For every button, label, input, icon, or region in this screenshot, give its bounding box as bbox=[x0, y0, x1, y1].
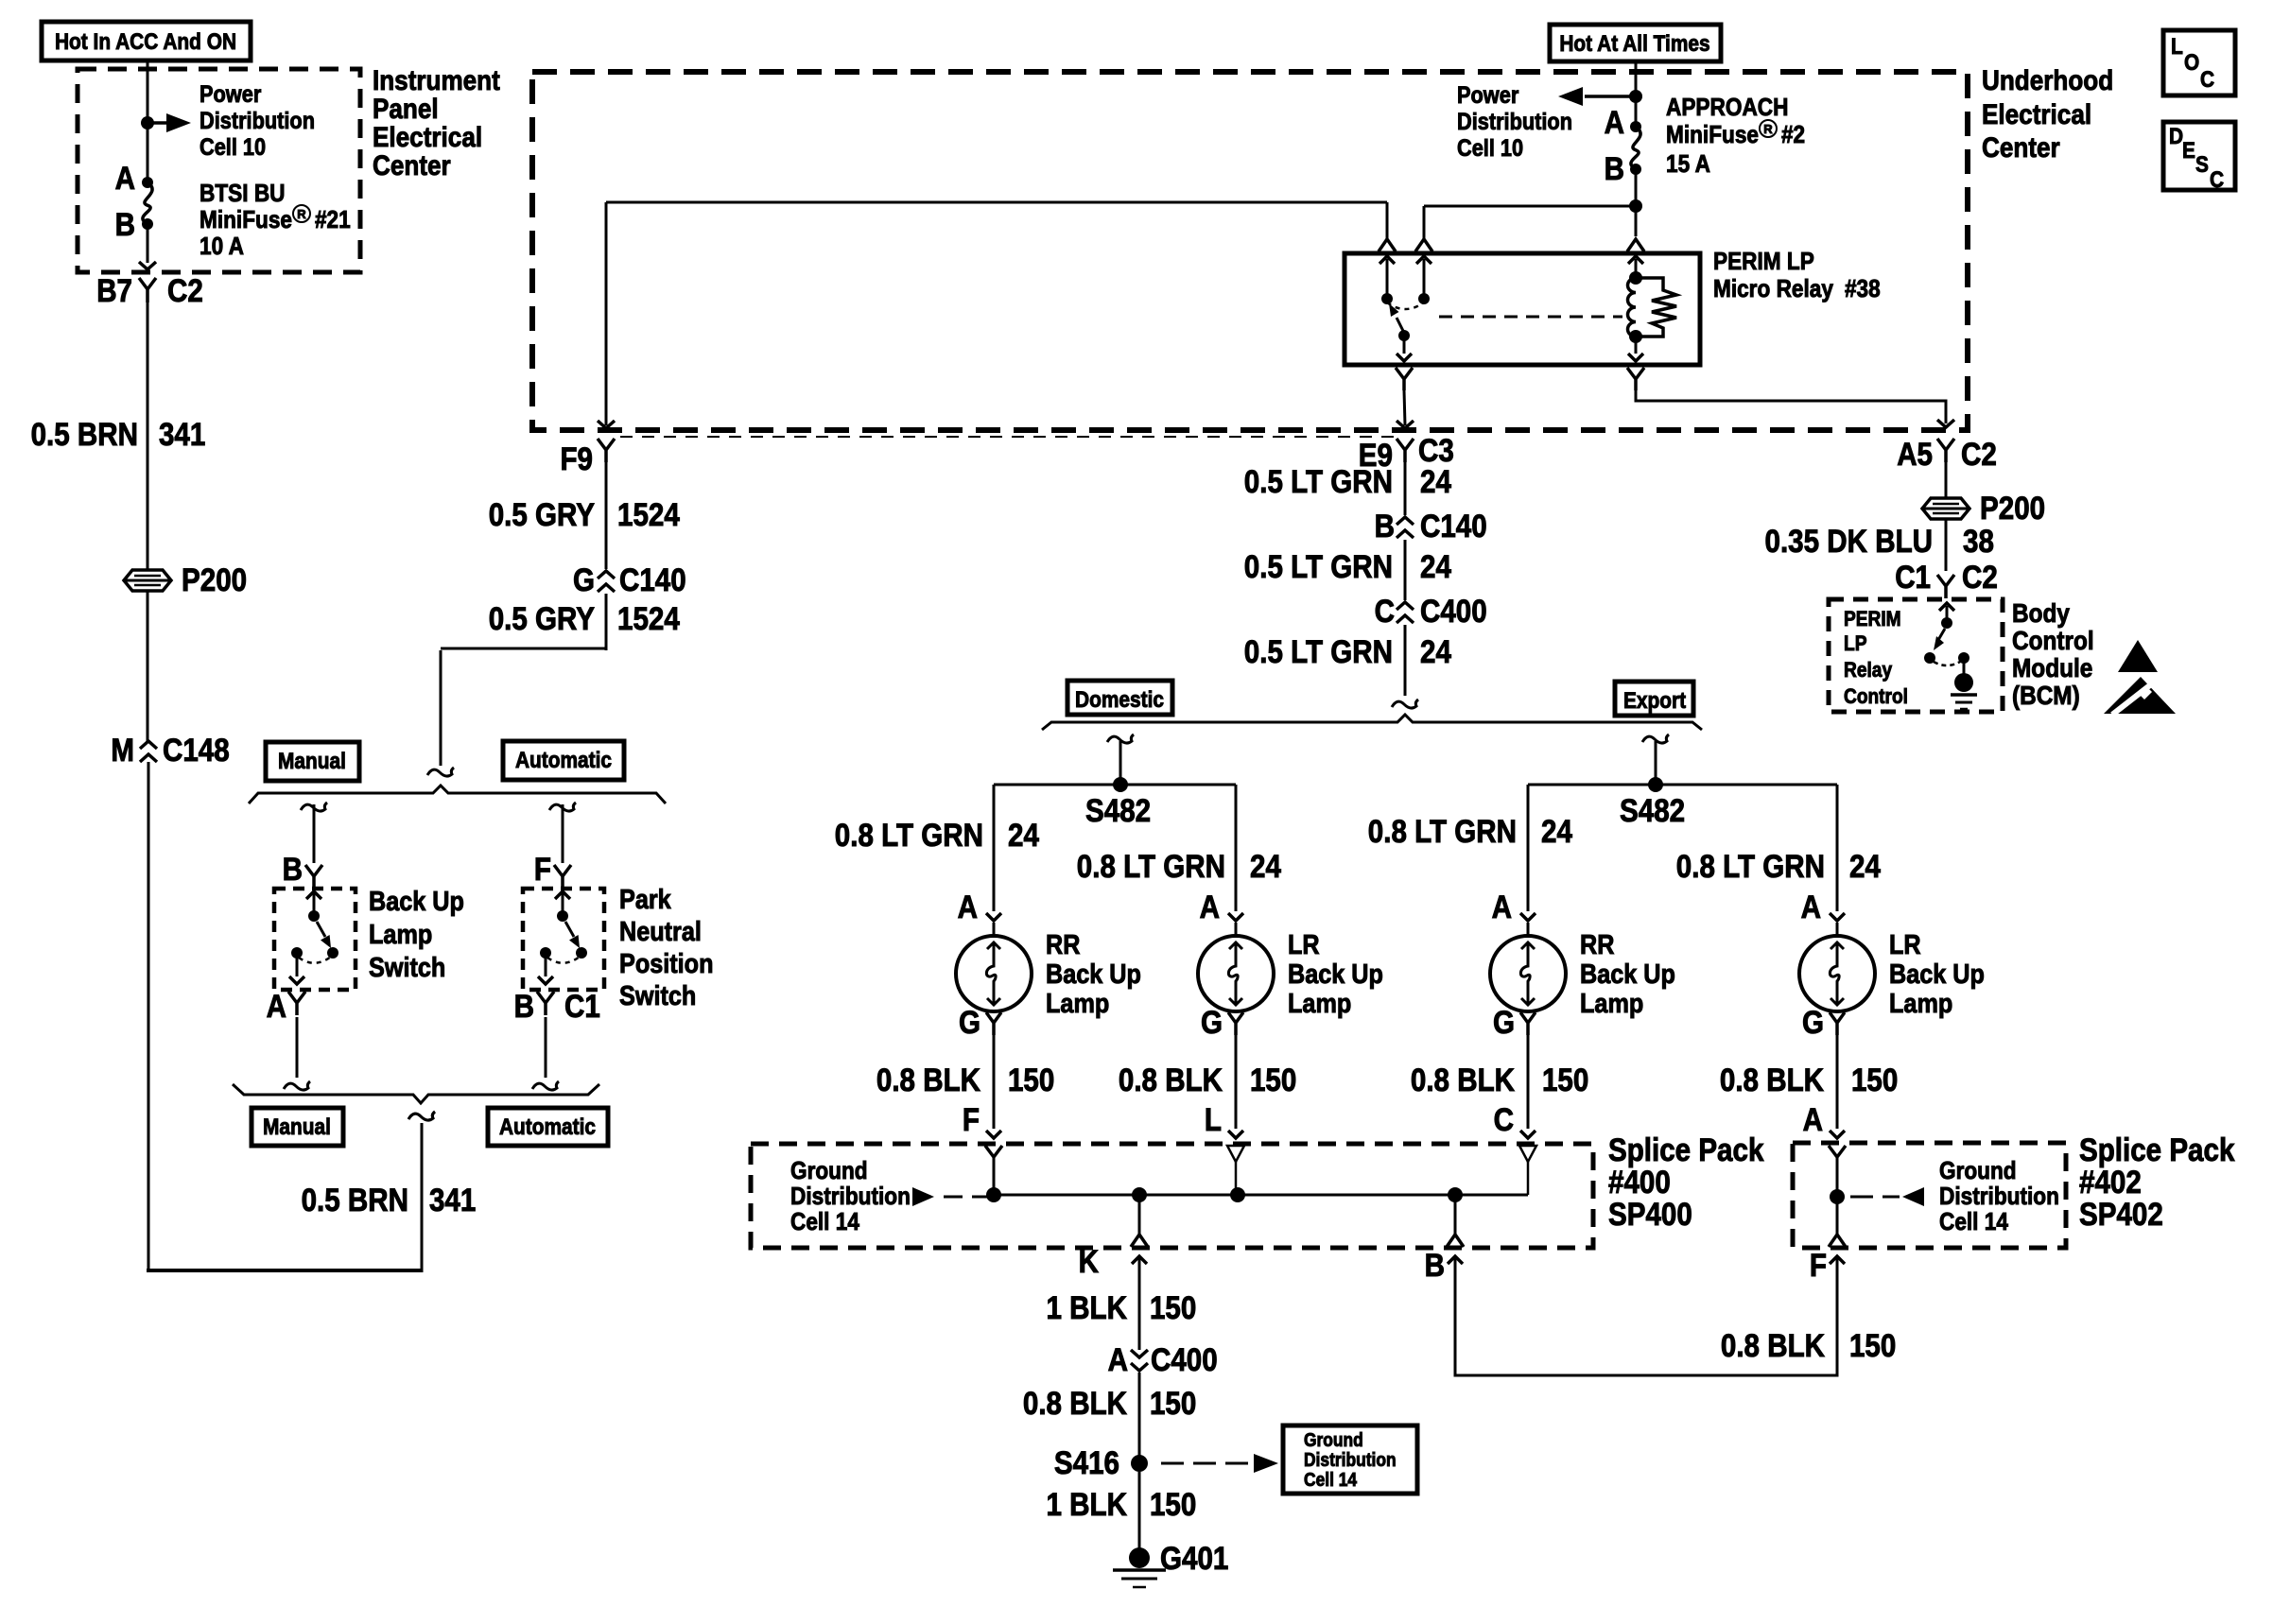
hook to export splice S482 bbox=[1642, 734, 1669, 743]
svg-text:APPROACH: APPROACH bbox=[1666, 93, 1789, 121]
svg-text:Back Up: Back Up bbox=[369, 887, 464, 917]
Underhood Electrical Center dashed box bbox=[532, 72, 1968, 430]
svg-text:150: 150 bbox=[1849, 1328, 1896, 1364]
Body Control Module dashed box bbox=[1829, 599, 2003, 712]
svg-text:Manual: Manual bbox=[263, 1114, 331, 1140]
svg-text:Back Up: Back Up bbox=[1889, 959, 1985, 990]
junction to power distribution (right) bbox=[1629, 90, 1642, 103]
svg-text:#402: #402 bbox=[2079, 1165, 2142, 1201]
svg-text:0.8 LT GRN: 0.8 LT GRN bbox=[1676, 849, 1825, 885]
svg-text:Electrical: Electrical bbox=[1982, 99, 2091, 130]
wire corner to switch brace bbox=[441, 648, 606, 650]
SP400 bus junction L bbox=[1230, 1187, 1245, 1202]
LR back up lamp (export) bbox=[1799, 936, 1875, 1011]
SP400 bus junction B bbox=[1448, 1187, 1463, 1202]
svg-text:RR: RR bbox=[1046, 930, 1080, 960]
wire 0.5 GRY upper bbox=[605, 462, 608, 569]
svg-text:Switch: Switch bbox=[619, 981, 696, 1011]
relay NO pin fork bbox=[1415, 239, 1432, 251]
hook above domestic/export brace bbox=[1392, 700, 1418, 708]
SP400 pin C hollow triangle bbox=[1519, 1146, 1536, 1162]
wire to PNP pin F bbox=[562, 804, 564, 863]
LR back up lamp (domestic) bbox=[1198, 936, 1274, 1011]
page boundary thin dashed line bbox=[620, 436, 1394, 438]
wire into S482 domestic bbox=[1119, 741, 1122, 785]
relay coil bottom pin bbox=[1635, 337, 1638, 354]
relay coil output fork bbox=[1627, 368, 1644, 390]
connector C3 pin E9 (Y) bbox=[1397, 439, 1414, 462]
svg-text:B7: B7 bbox=[96, 273, 132, 309]
label box Domestic bbox=[1067, 681, 1172, 715]
svg-text:Power: Power bbox=[1457, 82, 1519, 109]
svg-text:150: 150 bbox=[1542, 1063, 1588, 1098]
relay contact dashed arc bbox=[1387, 302, 1424, 309]
park neutral position switch lower contact A bbox=[540, 947, 551, 959]
svg-text:0.5 BRN: 0.5 BRN bbox=[31, 417, 138, 453]
wire 0.5 LT GRN (C400 to brace) bbox=[1404, 625, 1407, 696]
svg-text:Lamp: Lamp bbox=[1046, 989, 1109, 1019]
SP400 ground distribution arrow bbox=[912, 1187, 934, 1206]
svg-text:A: A bbox=[1801, 890, 1821, 925]
svg-text:A: A bbox=[115, 161, 135, 197]
svg-text:Center: Center bbox=[373, 150, 451, 181]
wire 0.8 BLK 150 (B to SP402 F) bbox=[1455, 1258, 1837, 1375]
power label box "Hot At All Times" bbox=[1550, 25, 1721, 61]
SP400 pin B exit fork bbox=[1454, 1195, 1457, 1235]
svg-text:24: 24 bbox=[1420, 634, 1451, 670]
svg-text:A: A bbox=[1200, 890, 1220, 925]
svg-text:C1: C1 bbox=[1895, 560, 1931, 596]
svg-text:150: 150 bbox=[1250, 1063, 1296, 1098]
svg-text:Distribution: Distribution bbox=[200, 108, 315, 134]
wire 0.5 BRN 341 (upper) bbox=[147, 302, 149, 570]
svg-text:1524: 1524 bbox=[617, 601, 680, 637]
svg-text:C400: C400 bbox=[1420, 594, 1487, 630]
connector C148 pin M bbox=[140, 741, 157, 762]
connector C1/C2 into BCM bbox=[1937, 575, 1954, 598]
svg-text:A: A bbox=[1803, 1102, 1823, 1138]
wire 0.5 GRY lower bbox=[605, 594, 608, 650]
Ground Distribution Cell 14 box bbox=[1283, 1425, 1417, 1494]
connector C400 pin C bbox=[1397, 602, 1414, 623]
wire from Hot At All Times bbox=[1635, 61, 1638, 127]
back up lamp switch alternate-position dashed arc bbox=[299, 957, 331, 963]
svg-text:150: 150 bbox=[1150, 1386, 1196, 1422]
svg-text:Distribution: Distribution bbox=[1304, 1450, 1397, 1471]
power label box "Hot In ACC And ON" bbox=[42, 22, 251, 60]
wire 0.8 LT GRN to RR lamp (dom) bbox=[993, 785, 996, 911]
svg-text:Switch: Switch bbox=[369, 953, 445, 983]
svg-text:0.5 LT GRN: 0.5 LT GRN bbox=[1244, 549, 1393, 585]
svg-text:24: 24 bbox=[1420, 464, 1451, 500]
svg-text:P200: P200 bbox=[182, 562, 247, 598]
svg-text:0.8 LT GRN: 0.8 LT GRN bbox=[1077, 849, 1225, 885]
svg-text:C2: C2 bbox=[1961, 437, 1997, 473]
SP402 pin A fork bbox=[1829, 1146, 1846, 1157]
svg-text:G: G bbox=[1201, 1005, 1223, 1041]
relay switch NO contact bbox=[1416, 256, 1431, 264]
relay common pin fork bbox=[1386, 202, 1389, 238]
svg-text:0.5 BRN: 0.5 BRN bbox=[302, 1183, 408, 1218]
svg-text:C140: C140 bbox=[1420, 509, 1487, 544]
brace over switches bbox=[249, 786, 666, 803]
Instrument Panel Electrical Center dashed box bbox=[78, 69, 360, 272]
label box Manual (top) bbox=[266, 742, 359, 781]
svg-text:B: B bbox=[514, 989, 534, 1025]
svg-text:C: C bbox=[2210, 167, 2224, 193]
wire into S482 export bbox=[1655, 741, 1657, 785]
svg-text:O: O bbox=[2184, 50, 2199, 76]
svg-text:0.5 LT GRN: 0.5 LT GRN bbox=[1244, 634, 1393, 670]
wire BULS A to lower brace bbox=[296, 1017, 299, 1078]
svg-text:A: A bbox=[267, 989, 286, 1025]
svg-text:C: C bbox=[1494, 1102, 1514, 1138]
wire below P200 bbox=[147, 591, 149, 741]
svg-text:150: 150 bbox=[1150, 1487, 1196, 1523]
splice S416 bbox=[1131, 1455, 1148, 1472]
svg-text:Park: Park bbox=[619, 885, 671, 915]
svg-text:Instrument: Instrument bbox=[373, 65, 500, 96]
svg-text:1 BLK: 1 BLK bbox=[1047, 1487, 1128, 1523]
park neutral position switch movable arm bbox=[565, 922, 574, 937]
svg-text:#38: #38 bbox=[1845, 274, 1881, 302]
svg-text:150: 150 bbox=[1851, 1063, 1898, 1098]
svg-text:0.8 BLK: 0.8 BLK bbox=[1023, 1386, 1127, 1422]
svg-text:Back Up: Back Up bbox=[1288, 959, 1383, 990]
svg-text:S482: S482 bbox=[1085, 793, 1151, 829]
svg-text:0.8 LT GRN: 0.8 LT GRN bbox=[835, 818, 983, 854]
relay switch common pin bbox=[1403, 336, 1406, 354]
wire 1 BLK 150 (K to C400) bbox=[1138, 1258, 1141, 1350]
svg-text:PERIM LP: PERIM LP bbox=[1713, 247, 1814, 275]
wire 0.5 LT GRN (E9 to C140) bbox=[1404, 462, 1407, 515]
svg-text:Manual: Manual bbox=[278, 749, 346, 774]
ESD sensitive symbol bbox=[2118, 640, 2158, 672]
svg-text:#2: #2 bbox=[1781, 120, 1805, 148]
wire 0.8 BLK LR to splice pack (dom) bbox=[1235, 1035, 1238, 1129]
svg-text:Power: Power bbox=[200, 81, 262, 108]
svg-text:24: 24 bbox=[1250, 849, 1281, 885]
svg-text:Position: Position bbox=[619, 949, 714, 979]
park neutral position switch box bbox=[523, 889, 604, 990]
SP400 pin F fork bbox=[985, 1146, 1002, 1157]
svg-text:A5: A5 bbox=[1897, 437, 1933, 473]
hook at switch-return brace bbox=[408, 1112, 435, 1120]
connector C140 pin B bbox=[1397, 517, 1414, 538]
SP400 pin K exit fork bbox=[1138, 1195, 1141, 1235]
connector pin F of PNP switch bbox=[554, 865, 571, 888]
svg-text:341: 341 bbox=[159, 417, 205, 453]
wire 0.5 LT GRN (C140 to C400) bbox=[1404, 540, 1407, 600]
relay output fork (common) bbox=[1396, 368, 1413, 390]
wire 0.8 BLK RR to splice pack (exp) bbox=[1527, 1035, 1530, 1129]
svg-text:Panel: Panel bbox=[373, 94, 439, 125]
svg-text:Control: Control bbox=[1844, 684, 1908, 708]
svg-text:Back Up: Back Up bbox=[1046, 959, 1141, 990]
svg-text:A: A bbox=[958, 890, 978, 925]
svg-text:Hot At All Times: Hot At All Times bbox=[1559, 31, 1709, 57]
fuse BTSI BU MiniFuse #21 10A bbox=[142, 177, 153, 188]
wire: fuse B down to IPEC edge bbox=[147, 224, 149, 263]
svg-text:B: B bbox=[115, 207, 135, 243]
wire fuse B down to relay coil bbox=[1635, 169, 1638, 236]
svg-text:24: 24 bbox=[1849, 849, 1881, 885]
SP400 ground bus bbox=[994, 1194, 1528, 1197]
svg-text:Distribution: Distribution bbox=[790, 1182, 911, 1210]
svg-text:Distribution: Distribution bbox=[1939, 1182, 2059, 1210]
svg-text:0.5 GRY: 0.5 GRY bbox=[489, 497, 596, 533]
svg-text:C: C bbox=[1375, 594, 1395, 630]
relay coil pin fork bbox=[1627, 239, 1644, 251]
wire PNP B to lower brace bbox=[545, 1017, 547, 1078]
svg-text:0.5 GRY: 0.5 GRY bbox=[489, 601, 596, 637]
svg-text:24: 24 bbox=[1420, 549, 1451, 585]
svg-text:S482: S482 bbox=[1620, 793, 1685, 829]
svg-text:SP402: SP402 bbox=[2079, 1197, 2163, 1233]
RR back up lamp (domestic) bbox=[956, 936, 1032, 1011]
svg-text:Lamp: Lamp bbox=[1580, 989, 1643, 1019]
inline connector P200 (right) bbox=[1922, 498, 1969, 519]
svg-text:0.8 BLK: 0.8 BLK bbox=[1411, 1063, 1515, 1098]
svg-text:Body: Body bbox=[2012, 598, 2070, 628]
svg-text:Domestic: Domestic bbox=[1075, 687, 1164, 713]
wire 1 BLK 150 (S416 to G401) bbox=[1138, 1472, 1141, 1549]
SP400 pin L hollow triangle bbox=[1227, 1146, 1244, 1162]
svg-text:G: G bbox=[573, 562, 595, 598]
svg-text:341: 341 bbox=[429, 1183, 476, 1218]
power distribution arrow (left circuit) bbox=[147, 121, 166, 125]
svg-text:Automatic: Automatic bbox=[515, 748, 612, 773]
relay switch NC contact bbox=[1379, 256, 1395, 264]
SP400 pin B label and arrow bbox=[1448, 1256, 1463, 1264]
svg-text:F: F bbox=[534, 852, 551, 888]
svg-text:P200: P200 bbox=[1980, 491, 2045, 527]
svg-text:Lamp: Lamp bbox=[1288, 989, 1351, 1019]
svg-text:150: 150 bbox=[1150, 1290, 1196, 1326]
svg-text:24: 24 bbox=[1008, 818, 1039, 854]
svg-text:BTSI BU: BTSI BU bbox=[200, 179, 286, 207]
connector C2 pin A5 (Y) bbox=[1937, 439, 1954, 462]
svg-text:C2: C2 bbox=[1962, 560, 1998, 596]
svg-text:Micro Relay: Micro Relay bbox=[1713, 274, 1833, 302]
wire: Hot In ACC feed into IP electrical center bbox=[147, 60, 149, 182]
svg-text:Neutral: Neutral bbox=[619, 917, 702, 947]
svg-text:Underhood: Underhood bbox=[1982, 65, 2113, 96]
svg-text:G: G bbox=[959, 1005, 980, 1041]
svg-text:0.8 BLK: 0.8 BLK bbox=[876, 1063, 980, 1098]
DESC legend box bbox=[2163, 122, 2235, 190]
svg-text:0.8 BLK: 0.8 BLK bbox=[1119, 1063, 1223, 1098]
svg-text:150: 150 bbox=[1008, 1063, 1054, 1098]
svg-text:F: F bbox=[1810, 1248, 1827, 1284]
SP402 internal junction bbox=[1830, 1189, 1845, 1204]
svg-text:Lamp: Lamp bbox=[369, 920, 432, 950]
SP400 pin K label and arrow bbox=[1132, 1256, 1147, 1264]
svg-text:Back Up: Back Up bbox=[1580, 959, 1675, 990]
back up lamp switch movable arm bbox=[317, 922, 325, 937]
svg-text:E: E bbox=[2182, 138, 2195, 164]
svg-text:G: G bbox=[1802, 1005, 1824, 1041]
export lamp bus bbox=[1528, 784, 1837, 786]
svg-text:Ground: Ground bbox=[790, 1156, 868, 1184]
svg-text:D: D bbox=[2169, 124, 2183, 149]
wire from 0.5 GRY into brace bbox=[440, 650, 442, 766]
Splice Pack 402 dashed box bbox=[1793, 1143, 2066, 1248]
connector C2 pin B7 (Y) bbox=[139, 278, 156, 302]
wire 0.35 DK BLU 38 bbox=[1945, 519, 1948, 571]
svg-text:LP: LP bbox=[1844, 631, 1867, 655]
wire 0.8 BLK RR to splice pack (dom) bbox=[993, 1035, 996, 1129]
domestic lamp bus bbox=[994, 784, 1236, 786]
park neutral position switch alternate-position dashed arc bbox=[547, 957, 580, 963]
wire A5 to P200 bbox=[1945, 462, 1948, 498]
svg-text:M: M bbox=[111, 733, 134, 769]
inline connector P200 (left) bbox=[124, 570, 171, 591]
svg-text:A: A bbox=[1605, 105, 1624, 141]
svg-text:C148: C148 bbox=[163, 733, 230, 769]
svg-text:Splice Pack: Splice Pack bbox=[2079, 1132, 2234, 1168]
splice S482 (domestic) bbox=[1113, 777, 1128, 792]
park neutral position switch fixed contact B bbox=[555, 891, 570, 899]
svg-text:10 A: 10 A bbox=[200, 232, 244, 260]
hook to park neutral position switch bbox=[549, 803, 576, 811]
svg-text:RR: RR bbox=[1580, 930, 1614, 960]
svg-text:Center: Center bbox=[1982, 132, 2060, 164]
svg-text:Electrical: Electrical bbox=[373, 122, 482, 153]
svg-text:Ground: Ground bbox=[1304, 1430, 1363, 1451]
svg-text:B: B bbox=[1605, 151, 1624, 187]
RR back up lamp (export) bbox=[1490, 936, 1566, 1011]
svg-text:Cell 14: Cell 14 bbox=[790, 1207, 859, 1235]
connector C140 pin G bbox=[598, 571, 615, 592]
svg-text:L: L bbox=[1205, 1102, 1222, 1138]
svg-text:C1: C1 bbox=[564, 989, 600, 1025]
svg-text:1 BLK: 1 BLK bbox=[1047, 1290, 1128, 1326]
svg-text:Cell 10: Cell 10 bbox=[1457, 135, 1523, 162]
relay coil bbox=[1628, 256, 1643, 264]
label box Automatic (bottom) bbox=[488, 1108, 608, 1146]
wire 0.8 BLK 150 (C400 to S416) bbox=[1138, 1373, 1141, 1463]
S416 ground distribution dashed arrow bbox=[1161, 1462, 1184, 1465]
label box Export bbox=[1615, 682, 1693, 716]
wire 0.8 LT GRN to LR lamp (exp) bbox=[1836, 785, 1839, 911]
SP402 pin F exit fork bbox=[1836, 1197, 1839, 1235]
svg-text:(BCM): (BCM) bbox=[2012, 681, 2080, 710]
svg-text:0.5 LT GRN: 0.5 LT GRN bbox=[1244, 464, 1393, 500]
svg-text:Cell 14: Cell 14 bbox=[1304, 1470, 1358, 1491]
svg-text:Export: Export bbox=[1623, 688, 1686, 714]
svg-text:C: C bbox=[2200, 67, 2214, 93]
svg-text:B: B bbox=[283, 852, 303, 888]
wire to BULS pin B bbox=[313, 804, 316, 863]
fuse APPROACH MiniFuse #2 15A bbox=[1630, 121, 1641, 132]
relay mechanical link dashed bbox=[1439, 316, 1622, 319]
wire relay common to F9 drop bbox=[606, 201, 1387, 204]
hook below lower brace bbox=[408, 1112, 435, 1120]
splice S482 (export) bbox=[1648, 777, 1663, 792]
svg-text:R: R bbox=[297, 207, 306, 221]
svg-text:B: B bbox=[1375, 509, 1395, 544]
svg-text:R: R bbox=[1763, 122, 1773, 136]
BCM perim lp relay control driver contact bbox=[1939, 603, 1954, 611]
svg-text:LR: LR bbox=[1889, 930, 1921, 960]
svg-text:C140: C140 bbox=[619, 562, 686, 598]
wire relay common to C3 bbox=[1404, 390, 1405, 425]
SP400 bus junction K bbox=[1132, 1187, 1147, 1202]
svg-text:B: B bbox=[1425, 1248, 1445, 1284]
svg-text:MiniFuse: MiniFuse bbox=[200, 205, 292, 233]
connector C3-left pin F9 (Y) bbox=[598, 421, 615, 428]
BCM driver arm bbox=[1938, 629, 1945, 640]
svg-text:A: A bbox=[1492, 890, 1512, 925]
hook to domestic splice S482 bbox=[1107, 734, 1134, 743]
svg-text:24: 24 bbox=[1541, 814, 1572, 850]
relay switch arm bbox=[1398, 330, 1410, 341]
svg-text:C2: C2 bbox=[167, 273, 203, 309]
wire 0.8 LT GRN to RR lamp (exp) bbox=[1527, 785, 1530, 911]
power distribution arrow (right circuit) bbox=[1585, 95, 1636, 98]
svg-text:LR: LR bbox=[1288, 930, 1320, 960]
svg-text:SP400: SP400 bbox=[1608, 1197, 1692, 1233]
svg-text:Lamp: Lamp bbox=[1889, 989, 1952, 1019]
wire 0.8 LT GRN to LR lamp (dom) bbox=[1235, 785, 1238, 911]
hook to Back Up Lamp Switch bbox=[301, 803, 327, 811]
svg-text:F9: F9 bbox=[561, 441, 594, 477]
label box Automatic (top) bbox=[503, 741, 624, 780]
svg-text:Module: Module bbox=[2012, 653, 2092, 682]
BCM internal ground symbol bbox=[1954, 673, 1973, 692]
svg-text:K: K bbox=[1079, 1244, 1100, 1280]
Splice Pack 400 dashed box bbox=[751, 1144, 1593, 1248]
wire relay coil to A5 C2 bbox=[1636, 389, 1946, 423]
back up lamp switch lower contact A bbox=[291, 947, 303, 959]
BCM internal ground contact bbox=[1958, 652, 1969, 664]
wire to relay NO pin bbox=[1424, 205, 1636, 208]
back up lamp switch fixed contact B bbox=[306, 891, 321, 899]
relay K38 PERIM LP Micro Relay box bbox=[1345, 253, 1700, 365]
wire 0.8 BLK LR to SP402 bbox=[1836, 1035, 1839, 1129]
back up lamp switch box bbox=[274, 889, 356, 990]
label box Manual (bottom) bbox=[252, 1108, 343, 1146]
SP400 bus junction F bbox=[986, 1187, 1001, 1202]
svg-text:#400: #400 bbox=[1608, 1165, 1671, 1201]
svg-text:Relay: Relay bbox=[1844, 658, 1893, 682]
svg-text:0.8 BLK: 0.8 BLK bbox=[1721, 1328, 1825, 1364]
svg-text:Ground: Ground bbox=[1939, 1156, 2017, 1184]
svg-text:Cell 14: Cell 14 bbox=[1939, 1207, 2008, 1235]
svg-text:G: G bbox=[1493, 1005, 1515, 1041]
svg-text:0.8 BLK: 0.8 BLK bbox=[1720, 1063, 1824, 1098]
svg-text:G401: G401 bbox=[1160, 1541, 1228, 1577]
ground G401 bbox=[1129, 1547, 1150, 1568]
brace under switches bbox=[233, 1084, 599, 1103]
svg-text:15 A: 15 A bbox=[1666, 149, 1710, 178]
junction to power distribution bbox=[141, 116, 154, 130]
svg-text:PERIM: PERIM bbox=[1844, 607, 1901, 631]
svg-text:F: F bbox=[963, 1102, 980, 1138]
svg-text:0.8 LT GRN: 0.8 LT GRN bbox=[1368, 814, 1517, 850]
svg-text:Distribution: Distribution bbox=[1457, 109, 1572, 135]
svg-text:#21: #21 bbox=[315, 205, 351, 233]
BCM driver dashed arc bbox=[1934, 662, 1960, 665]
svg-text:Splice Pack: Splice Pack bbox=[1608, 1132, 1763, 1168]
connector C400 pin A bbox=[1131, 1350, 1148, 1371]
svg-text:38: 38 bbox=[1963, 524, 1994, 560]
svg-text:Hot In ACC And ON: Hot In ACC And ON bbox=[55, 29, 236, 55]
svg-text:S416: S416 bbox=[1054, 1445, 1119, 1481]
svg-text:Control: Control bbox=[2012, 626, 2094, 655]
svg-text:A: A bbox=[1108, 1342, 1128, 1378]
